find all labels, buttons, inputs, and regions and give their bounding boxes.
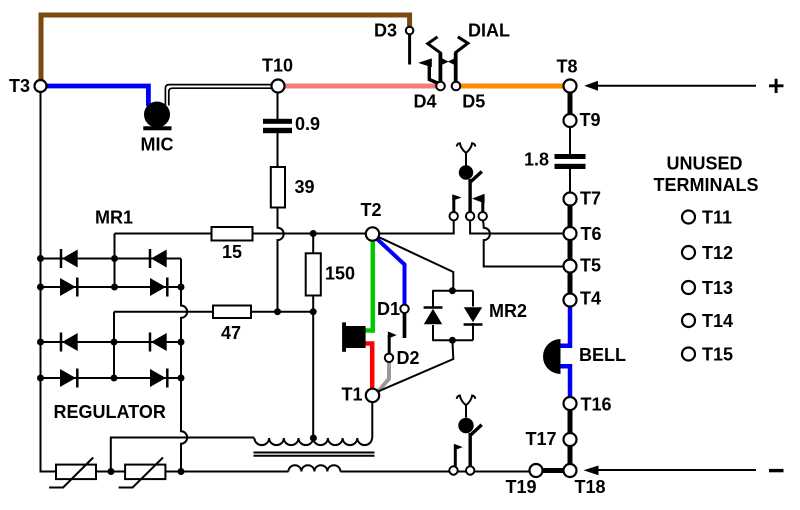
junction MR2 top bbox=[449, 287, 456, 294]
wire 15-line to T2 bbox=[253, 233, 367, 235]
MIC cord pair bbox=[165, 85, 272, 105]
wire 150 column bbox=[312, 234, 314, 439]
wire hook contact to T5 with hop bbox=[483, 220, 564, 267]
terminal T10 bbox=[272, 80, 285, 93]
svg-text:T18: T18 bbox=[575, 477, 606, 497]
junction right bus row2 bbox=[178, 284, 185, 291]
contact circle D2 bbox=[385, 354, 393, 362]
junction right bus bottom rail bbox=[178, 468, 185, 475]
svg-text:T1: T1 bbox=[342, 385, 363, 405]
wire cap 1.8 to T7 bbox=[569, 169, 571, 193]
svg-text:TERMINALS: TERMINALS bbox=[654, 175, 759, 195]
wire blue T4 to BELL to T16 bbox=[560, 304, 571, 346]
svg-text:T8: T8 bbox=[557, 57, 578, 77]
wire T1 down to transformer bbox=[371, 402, 373, 439]
wire left bus T3 down to bottom rail bbox=[41, 92, 57, 472]
svg-text:1.8: 1.8 bbox=[524, 150, 549, 170]
strap T8 to T9 bbox=[568, 90, 573, 116]
svg-text:MR2: MR2 bbox=[489, 301, 527, 321]
svg-text:D2: D2 bbox=[397, 348, 420, 368]
diode MR1 row4 right bbox=[150, 369, 166, 387]
wire hook blade to T6 bbox=[470, 220, 564, 234]
wire pink T10 to D4 bbox=[282, 84, 437, 89]
junction varistor tap bbox=[108, 468, 115, 475]
svg-text:T4: T4 bbox=[580, 289, 601, 309]
varistor 1 bbox=[56, 465, 96, 480]
svg-text:MIC: MIC bbox=[141, 135, 174, 155]
terminal T6 bbox=[564, 227, 577, 240]
svg-text:REGULATOR: REGULATOR bbox=[54, 402, 166, 422]
terminal T5 bbox=[564, 260, 577, 273]
junction left bus row4 bbox=[37, 375, 44, 382]
svg-text:T9: T9 bbox=[580, 110, 601, 130]
terminal T9 bbox=[564, 114, 577, 127]
hookswitch upper left contact flag bbox=[452, 196, 455, 213]
resistor 47 bbox=[213, 306, 251, 319]
wire top arrow line bbox=[597, 85, 756, 87]
svg-text:T6: T6 bbox=[581, 224, 602, 244]
capacitor 1.8 bbox=[555, 154, 586, 159]
junction mid column row4 bbox=[111, 375, 118, 382]
wire green T2 to receiver bbox=[364, 238, 373, 331]
wire MR1 row3 bbox=[41, 341, 182, 343]
svg-text:T10: T10 bbox=[262, 56, 293, 76]
unused terminal T14 bbox=[682, 314, 695, 327]
receiver earpiece bbox=[342, 322, 346, 351]
wire T9 to cap 1.8 bbox=[569, 127, 571, 154]
svg-text:D1: D1 bbox=[377, 299, 400, 319]
svg-text:D3: D3 bbox=[374, 21, 397, 41]
hookswitch lower blade bbox=[469, 433, 472, 467]
hookswitch lower plunger fork bbox=[457, 396, 475, 418]
wire blue T2 to D1 bbox=[376, 238, 405, 307]
junction right bus row4 bbox=[178, 375, 185, 382]
hookswitch lower contact circles bbox=[449, 466, 457, 474]
svg-text:MR1: MR1 bbox=[95, 208, 133, 228]
contact circle D5 bbox=[452, 82, 461, 91]
terminal T17 bbox=[564, 433, 577, 446]
MR1 diode cathode bars bbox=[60, 249, 63, 268]
svg-text:150: 150 bbox=[325, 264, 355, 284]
terminal T2 bbox=[366, 227, 379, 240]
junction left bus row3 bbox=[37, 339, 44, 346]
varistor 2 bbox=[125, 465, 165, 480]
wire MR2 to T1 diagonal bbox=[379, 340, 454, 391]
wire bottom arrow line bbox=[598, 469, 757, 471]
microphone MIC bbox=[144, 102, 170, 128]
wire 15-line left bbox=[115, 233, 212, 235]
terminal T3 bbox=[35, 80, 47, 92]
wire MR1 bottom bridge mid column bbox=[113, 312, 115, 378]
wire MR1 row4 bbox=[41, 377, 182, 379]
junction right bus row3 bbox=[178, 339, 185, 346]
strap T16 to T18 bbox=[568, 407, 573, 466]
terminal T18 bbox=[564, 464, 577, 477]
diode MR1 row4 left bbox=[60, 369, 76, 387]
svg-text:T19: T19 bbox=[506, 477, 537, 497]
junction 150 bottom bbox=[310, 308, 317, 315]
hookswitch upper contact circles bbox=[450, 212, 458, 220]
plus sign bbox=[769, 79, 784, 93]
svg-text:T16: T16 bbox=[581, 395, 612, 415]
unused terminal T12 bbox=[682, 246, 695, 259]
svg-text:DIAL: DIAL bbox=[468, 21, 510, 41]
junction left bus row1 bbox=[37, 255, 44, 262]
svg-text:T14: T14 bbox=[702, 311, 733, 331]
terminal T19 bbox=[530, 464, 543, 477]
wire T2 to hook contact bbox=[379, 220, 454, 234]
dial spring chevron right bbox=[455, 37, 468, 53]
diode MR1 row1 right bbox=[151, 250, 167, 268]
svg-text:15: 15 bbox=[222, 242, 242, 262]
rectifier MR2 bbox=[424, 291, 483, 341]
svg-text:T7: T7 bbox=[580, 189, 601, 209]
minus sign bbox=[769, 469, 784, 472]
arrowhead bottom bbox=[584, 466, 599, 476]
dial contact blade B to D4 bbox=[438, 53, 442, 83]
svg-text:T3: T3 bbox=[9, 76, 30, 96]
contact circle D1 bbox=[400, 305, 408, 313]
wire 47-line bbox=[114, 311, 313, 313]
dial contact D3 blade bbox=[408, 35, 411, 65]
unused terminal T15 bbox=[682, 348, 695, 361]
hookswitch upper blade bbox=[468, 179, 471, 213]
terminal T1 bbox=[366, 389, 379, 402]
hookswitch lower left contact flag bbox=[454, 450, 457, 467]
svg-text:T12: T12 bbox=[702, 243, 733, 263]
capacitor 0.9 bbox=[263, 119, 292, 124]
svg-text:D5: D5 bbox=[462, 92, 485, 112]
svg-text:T2: T2 bbox=[361, 200, 382, 220]
junction transformer center tap bbox=[310, 435, 317, 442]
transformer secondary winding bbox=[288, 465, 340, 471]
wire bottom rail segments bbox=[96, 471, 530, 473]
bell gong bbox=[543, 339, 561, 374]
diode MR1 row3 right bbox=[151, 333, 167, 351]
resistor 15 bbox=[212, 227, 253, 241]
diode MR1 row1 left bbox=[62, 250, 78, 268]
hookswitch upper pivot bbox=[459, 165, 473, 179]
junction mid column row2 bbox=[111, 284, 118, 291]
svg-text:D4: D4 bbox=[414, 92, 437, 112]
contact circle D4 bbox=[436, 82, 445, 91]
strap T19 to T18 bbox=[541, 468, 565, 473]
wire regulator to transformer primary bbox=[111, 438, 255, 472]
wire MR1 row2 bbox=[41, 286, 182, 288]
junction mid column row3 bbox=[111, 339, 118, 346]
arrowhead top bbox=[584, 81, 598, 91]
transformer core bbox=[254, 453, 375, 456]
wire blue T3 to MIC bbox=[44, 86, 148, 106]
wire 39 column T10 down with hop bbox=[278, 93, 284, 312]
dial off-normal contact at D4 bbox=[429, 66, 437, 83]
svg-text:0.9: 0.9 bbox=[295, 114, 320, 134]
wire brown T3 to D3 bbox=[41, 15, 410, 80]
resistor 150 bbox=[306, 253, 321, 295]
dial contact blade C to D5 bbox=[454, 53, 458, 83]
hookswitch upper right contact flag bbox=[481, 198, 484, 213]
svg-text:BELL: BELL bbox=[579, 345, 626, 365]
junction MR2 bottom bbox=[449, 337, 456, 344]
hookswitch upper plunger fork bbox=[457, 143, 475, 165]
junction 150 top bbox=[310, 230, 317, 237]
svg-text:T13: T13 bbox=[702, 278, 733, 298]
svg-text:T5: T5 bbox=[580, 256, 601, 276]
transformer primary winding bbox=[254, 438, 372, 445]
wire red receiver to T1 bbox=[364, 344, 372, 391]
dial spring chevron left bbox=[428, 37, 441, 54]
terminal T7 bbox=[564, 193, 577, 206]
unused terminal T13 bbox=[682, 281, 695, 294]
strap T7 to T4 bbox=[568, 203, 573, 296]
diode MR1 row3 left bbox=[62, 333, 78, 351]
wire gray D2 to T1 bbox=[379, 360, 390, 391]
svg-text:39: 39 bbox=[295, 177, 315, 197]
hookswitch lower pivot bbox=[458, 418, 473, 433]
terminal T16 bbox=[564, 397, 577, 410]
svg-text:UNUSED: UNUSED bbox=[667, 154, 743, 174]
wire MR1 top bridge mid column bbox=[114, 234, 116, 288]
contact circle D3 bbox=[406, 27, 414, 35]
diode MR1 row2 left bbox=[60, 278, 76, 296]
dial off-normal contact D1 blade bbox=[403, 313, 407, 339]
svg-text:T11: T11 bbox=[702, 208, 732, 228]
diode MR1 row2 right bbox=[150, 278, 166, 296]
unused terminal T11 bbox=[682, 211, 695, 224]
svg-text:T15: T15 bbox=[702, 345, 733, 365]
terminal T8 bbox=[564, 80, 577, 93]
wire T2 to MR2 diagonal bbox=[378, 237, 454, 291]
svg-text:T17: T17 bbox=[526, 429, 557, 449]
junction left bus row2 bbox=[37, 284, 44, 291]
terminal T4 bbox=[564, 294, 577, 307]
wire orange D5 to T8 bbox=[459, 84, 566, 89]
dial off-normal contact D2 flag bbox=[388, 335, 391, 354]
resistor 39 bbox=[271, 167, 285, 208]
junction mid column row1 bbox=[111, 255, 118, 262]
junction 39 column 47-line bbox=[274, 308, 281, 315]
wire MR1 right bus with hops bbox=[181, 259, 187, 472]
wire MR1 row1 bbox=[41, 258, 182, 260]
svg-text:47: 47 bbox=[221, 323, 241, 343]
